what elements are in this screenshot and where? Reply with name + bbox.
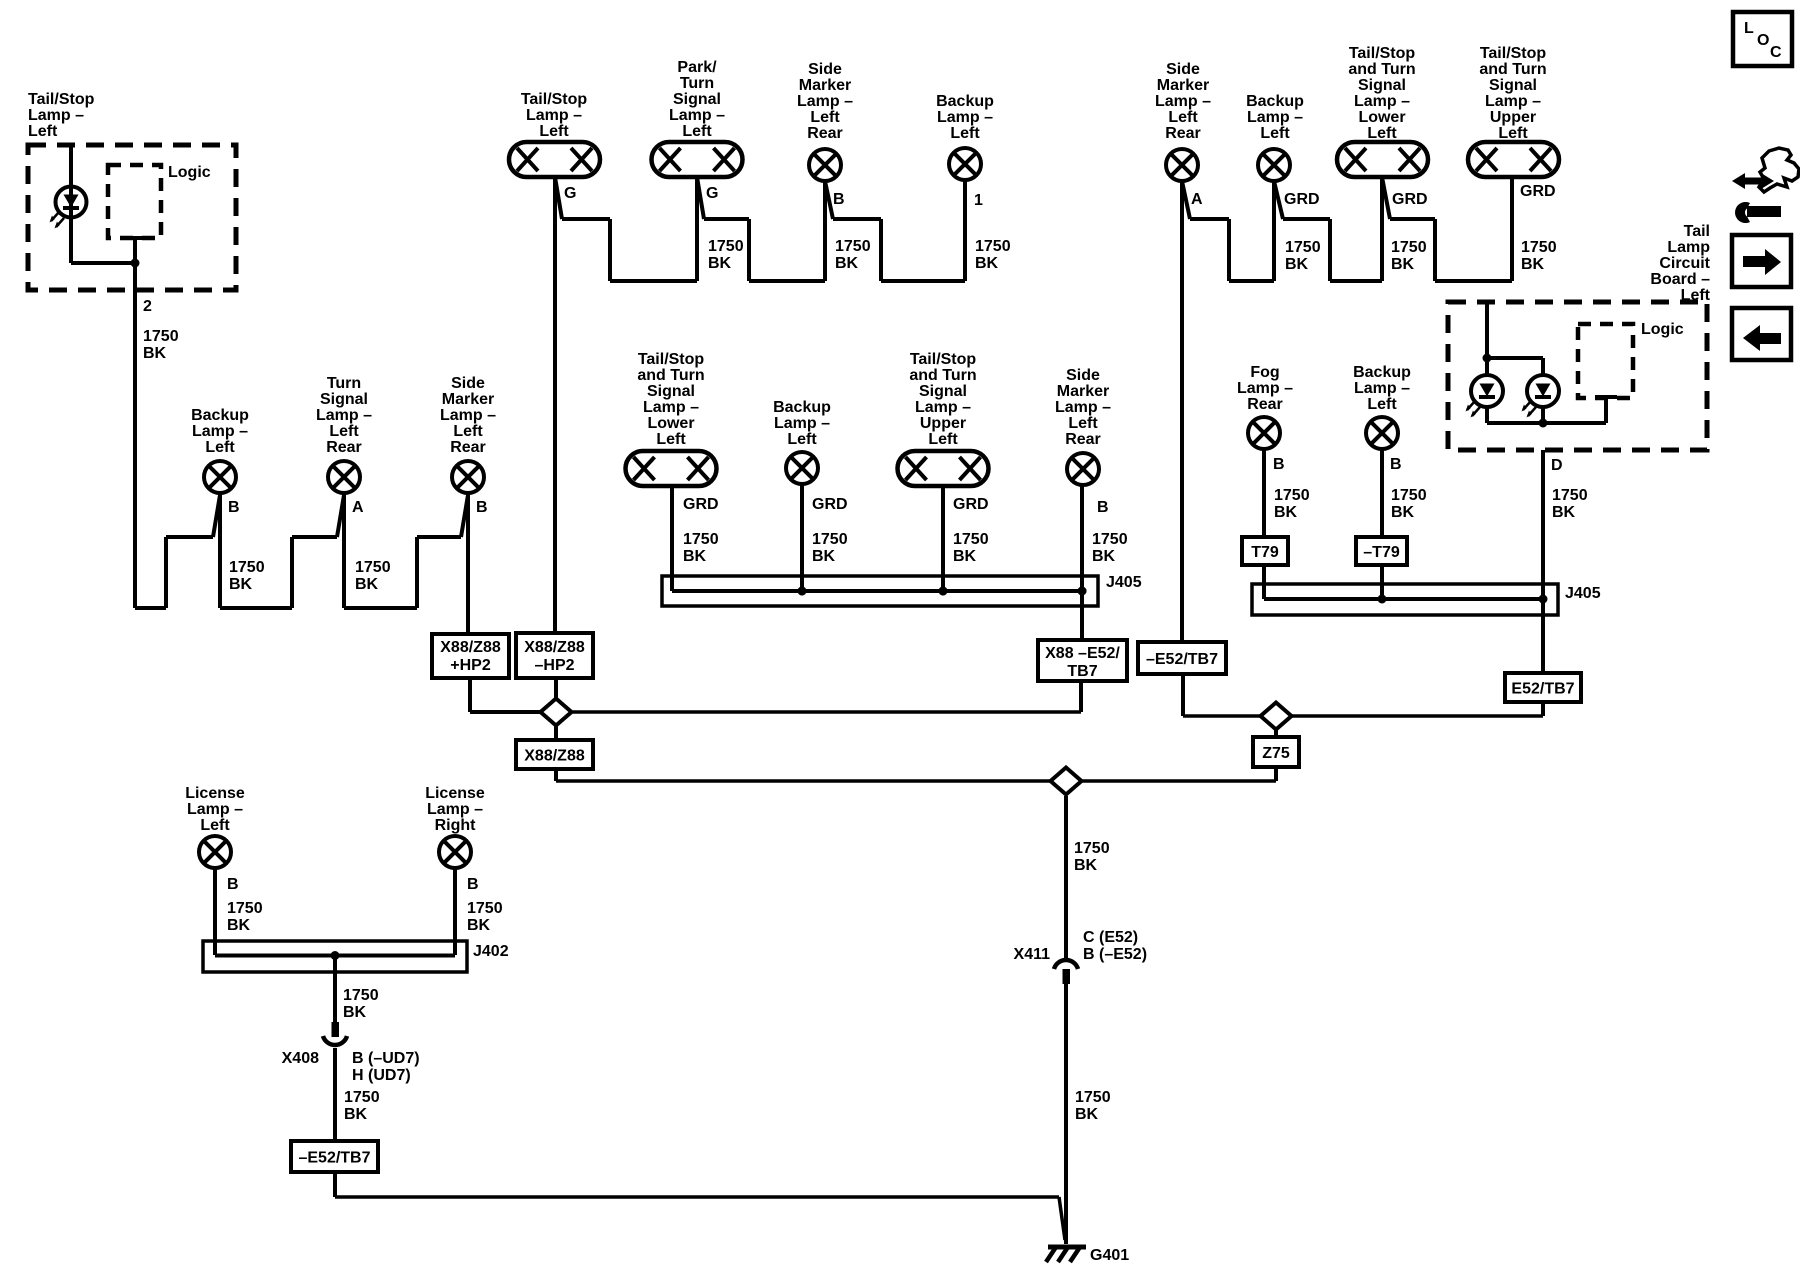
svg-text:Lamp –: Lamp – <box>28 107 84 124</box>
svg-text:BK: BK <box>227 917 251 934</box>
svg-text:O: O <box>1757 32 1769 49</box>
svg-text:1750: 1750 <box>1285 239 1321 256</box>
svg-text:BK: BK <box>1285 256 1309 273</box>
svg-text:–HP2: –HP2 <box>534 657 574 674</box>
svg-text:D: D <box>1551 457 1563 474</box>
svg-text:Upper: Upper <box>1490 109 1536 126</box>
svg-text:B: B <box>833 191 845 208</box>
svg-text:1: 1 <box>974 192 983 209</box>
svg-text:Left: Left <box>539 123 569 140</box>
svg-text:Rear: Rear <box>1065 431 1101 448</box>
svg-text:X88/Z88: X88/Z88 <box>440 639 501 656</box>
svg-text:Lamp –: Lamp – <box>1485 93 1541 110</box>
svg-text:Logic: Logic <box>168 164 211 181</box>
svg-text:+HP2: +HP2 <box>450 657 491 674</box>
svg-text:Lamp –: Lamp – <box>643 399 699 416</box>
svg-text:and Turn: and Turn <box>909 367 976 384</box>
svg-text:Signal: Signal <box>647 383 695 400</box>
svg-text:Lamp –: Lamp – <box>187 801 243 818</box>
svg-text:–E52/TB7: –E52/TB7 <box>1146 651 1218 668</box>
svg-text:Lamp –: Lamp – <box>1237 380 1293 397</box>
svg-text:Left: Left <box>200 817 230 834</box>
svg-text:Rear: Rear <box>326 439 362 456</box>
svg-text:Backup: Backup <box>773 399 831 416</box>
svg-text:1750: 1750 <box>1274 487 1310 504</box>
svg-text:1750: 1750 <box>683 531 719 548</box>
svg-text:Left: Left <box>453 423 483 440</box>
svg-text:Rear: Rear <box>1247 396 1283 413</box>
svg-text:BK: BK <box>1391 256 1415 273</box>
svg-text:1750: 1750 <box>1092 531 1128 548</box>
svg-text:TB7: TB7 <box>1067 663 1097 680</box>
svg-text:Side: Side <box>808 61 842 78</box>
svg-text:Left: Left <box>205 439 235 456</box>
svg-text:Left: Left <box>1168 109 1198 126</box>
svg-text:Tail/Stop: Tail/Stop <box>1480 45 1547 62</box>
svg-text:Backup: Backup <box>1353 364 1411 381</box>
svg-text:Lamp –: Lamp – <box>316 407 372 424</box>
svg-text:Tail/Stop: Tail/Stop <box>638 351 705 368</box>
svg-text:L: L <box>1744 20 1754 37</box>
svg-text:GRD: GRD <box>1392 191 1428 208</box>
svg-text:License: License <box>185 785 245 802</box>
svg-text:Park/: Park/ <box>677 59 717 76</box>
svg-text:1750: 1750 <box>227 900 263 917</box>
svg-text:Lamp –: Lamp – <box>1155 93 1211 110</box>
svg-text:X88/Z88: X88/Z88 <box>524 748 585 765</box>
svg-text:J402: J402 <box>473 943 509 960</box>
svg-text:1750: 1750 <box>1552 487 1588 504</box>
svg-text:BK: BK <box>1521 256 1545 273</box>
svg-text:Lamp –: Lamp – <box>526 107 582 124</box>
svg-text:B: B <box>228 499 240 516</box>
svg-text:Left: Left <box>1068 415 1098 432</box>
svg-text:BK: BK <box>467 917 491 934</box>
svg-text:Lower: Lower <box>1358 109 1405 126</box>
svg-text:BK: BK <box>683 548 707 565</box>
svg-text:BK: BK <box>1552 504 1576 521</box>
svg-text:A: A <box>352 499 364 516</box>
svg-text:1750: 1750 <box>1521 239 1557 256</box>
svg-text:GRD: GRD <box>683 496 719 513</box>
svg-text:A: A <box>1191 191 1203 208</box>
svg-text:Backup: Backup <box>1246 93 1304 110</box>
svg-text:Lamp –: Lamp – <box>192 423 248 440</box>
svg-text:C (E52): C (E52) <box>1083 929 1138 946</box>
svg-text:Left: Left <box>928 431 958 448</box>
svg-text:Marker: Marker <box>1157 77 1209 94</box>
svg-text:GRD: GRD <box>953 496 989 513</box>
svg-text:BK: BK <box>1075 1106 1099 1123</box>
svg-text:Lamp –: Lamp – <box>1247 109 1303 126</box>
svg-text:Side: Side <box>1166 61 1200 78</box>
svg-text:BK: BK <box>1092 548 1116 565</box>
svg-text:Left: Left <box>329 423 359 440</box>
svg-text:BK: BK <box>975 255 999 272</box>
svg-text:Z75: Z75 <box>1262 745 1290 762</box>
svg-text:Left: Left <box>28 123 58 140</box>
svg-text:Backup: Backup <box>191 407 249 424</box>
svg-text:Left: Left <box>787 431 817 448</box>
svg-text:H (UD7): H (UD7) <box>352 1067 411 1084</box>
svg-text:Rear: Rear <box>1165 125 1201 142</box>
svg-text:Upper: Upper <box>920 415 966 432</box>
svg-text:C: C <box>1770 44 1782 61</box>
svg-text:B (–E52): B (–E52) <box>1083 946 1147 963</box>
svg-text:Marker: Marker <box>799 77 851 94</box>
svg-text:2: 2 <box>143 298 152 315</box>
svg-text:GRD: GRD <box>1520 183 1556 200</box>
svg-text:1750: 1750 <box>812 531 848 548</box>
svg-text:G: G <box>564 185 576 202</box>
svg-text:E52/TB7: E52/TB7 <box>1511 681 1574 698</box>
svg-text:Tail: Tail <box>1684 223 1710 240</box>
svg-text:B: B <box>1390 456 1402 473</box>
svg-text:1750: 1750 <box>708 238 744 255</box>
svg-text:–T79: –T79 <box>1363 544 1400 561</box>
svg-text:BK: BK <box>1074 857 1098 874</box>
svg-text:Lamp –: Lamp – <box>937 109 993 126</box>
svg-text:X411: X411 <box>1014 946 1051 963</box>
svg-text:1750: 1750 <box>1391 487 1427 504</box>
svg-text:Lamp –: Lamp – <box>797 93 853 110</box>
svg-text:and Turn: and Turn <box>637 367 704 384</box>
svg-text:X408: X408 <box>282 1050 319 1067</box>
svg-text:BK: BK <box>343 1004 367 1021</box>
svg-text:T79: T79 <box>1251 544 1279 561</box>
svg-text:Left: Left <box>950 125 980 142</box>
svg-text:Board –: Board – <box>1650 271 1710 288</box>
svg-text:Lamp –: Lamp – <box>427 801 483 818</box>
svg-text:G401: G401 <box>1090 1247 1129 1264</box>
svg-text:B: B <box>227 876 239 893</box>
svg-text:Lamp –: Lamp – <box>669 107 725 124</box>
svg-text:B: B <box>467 876 479 893</box>
svg-text:Signal: Signal <box>673 91 721 108</box>
svg-text:1750: 1750 <box>953 531 989 548</box>
svg-text:and Turn: and Turn <box>1479 61 1546 78</box>
svg-text:Left: Left <box>1681 287 1711 304</box>
svg-text:Circuit: Circuit <box>1659 255 1710 272</box>
svg-text:Turn: Turn <box>327 375 361 392</box>
svg-text:Signal: Signal <box>1358 77 1406 94</box>
svg-text:Fog: Fog <box>1250 364 1279 381</box>
svg-text:BK: BK <box>812 548 836 565</box>
svg-text:BK: BK <box>1391 504 1415 521</box>
svg-text:B (–UD7): B (–UD7) <box>352 1050 420 1067</box>
svg-text:Tail/Stop: Tail/Stop <box>910 351 977 368</box>
svg-text:Lamp –: Lamp – <box>440 407 496 424</box>
svg-text:and Turn: and Turn <box>1348 61 1415 78</box>
svg-text:Signal: Signal <box>919 383 967 400</box>
svg-text:Left: Left <box>656 431 686 448</box>
svg-text:BK: BK <box>143 345 167 362</box>
svg-text:Lamp –: Lamp – <box>774 415 830 432</box>
svg-text:Lower: Lower <box>647 415 694 432</box>
svg-text:Right: Right <box>435 817 477 834</box>
svg-text:Lamp –: Lamp – <box>1354 380 1410 397</box>
svg-text:B: B <box>1097 499 1109 516</box>
svg-text:BK: BK <box>953 548 977 565</box>
svg-text:1750: 1750 <box>343 987 379 1004</box>
svg-text:Logic: Logic <box>1641 321 1684 338</box>
svg-text:1750: 1750 <box>1075 1089 1111 1106</box>
svg-text:1750: 1750 <box>344 1089 380 1106</box>
svg-text:GRD: GRD <box>812 496 848 513</box>
svg-text:J405: J405 <box>1565 585 1601 602</box>
svg-text:Side: Side <box>1066 367 1100 384</box>
svg-text:B: B <box>1273 456 1285 473</box>
svg-text:1750: 1750 <box>143 328 179 345</box>
svg-text:Marker: Marker <box>1057 383 1109 400</box>
svg-text:Rear: Rear <box>450 439 486 456</box>
svg-text:Marker: Marker <box>442 391 494 408</box>
svg-text:Left: Left <box>1260 125 1290 142</box>
svg-text:1750: 1750 <box>1074 840 1110 857</box>
svg-text:B: B <box>476 499 488 516</box>
svg-text:Signal: Signal <box>1489 77 1537 94</box>
svg-text:Lamp –: Lamp – <box>1354 93 1410 110</box>
svg-text:Lamp: Lamp <box>1667 239 1710 256</box>
svg-text:License: License <box>425 785 485 802</box>
svg-text:Left: Left <box>682 123 712 140</box>
svg-text:Side: Side <box>451 375 485 392</box>
svg-text:Left: Left <box>810 109 840 126</box>
svg-text:Lamp –: Lamp – <box>915 399 971 416</box>
svg-text:J405: J405 <box>1106 574 1142 591</box>
svg-text:BK: BK <box>708 255 732 272</box>
svg-text:Tail/Stop: Tail/Stop <box>1349 45 1416 62</box>
svg-text:BK: BK <box>344 1106 368 1123</box>
svg-text:Left: Left <box>1498 125 1528 142</box>
svg-text:Signal: Signal <box>320 391 368 408</box>
svg-text:1750: 1750 <box>229 559 265 576</box>
svg-text:1750: 1750 <box>835 238 871 255</box>
svg-text:–E52/TB7: –E52/TB7 <box>298 1150 370 1167</box>
svg-text:Left: Left <box>1367 396 1397 413</box>
svg-text:Left: Left <box>1367 125 1397 142</box>
svg-text:1750: 1750 <box>1391 239 1427 256</box>
svg-text:Tail/Stop: Tail/Stop <box>28 91 95 108</box>
svg-text:1750: 1750 <box>467 900 503 917</box>
svg-text:G: G <box>706 185 718 202</box>
svg-text:Turn: Turn <box>680 75 714 92</box>
svg-text:Tail/Stop: Tail/Stop <box>521 91 588 108</box>
svg-text:Lamp –: Lamp – <box>1055 399 1111 416</box>
svg-text:1750: 1750 <box>355 559 391 576</box>
svg-text:BK: BK <box>229 576 253 593</box>
svg-text:BK: BK <box>835 255 859 272</box>
svg-text:GRD: GRD <box>1284 191 1320 208</box>
svg-text:X88/Z88: X88/Z88 <box>524 639 585 656</box>
svg-text:X88 –E52/: X88 –E52/ <box>1045 645 1120 662</box>
svg-text:1750: 1750 <box>975 238 1011 255</box>
svg-text:Backup: Backup <box>936 93 994 110</box>
svg-text:BK: BK <box>1274 504 1298 521</box>
svg-text:BK: BK <box>355 576 379 593</box>
svg-text:Rear: Rear <box>807 125 843 142</box>
